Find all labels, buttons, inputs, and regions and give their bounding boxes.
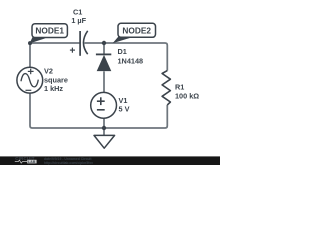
svg-text:NODE1: NODE1 [35, 26, 64, 36]
svg-text:D1: D1 [118, 47, 127, 56]
svg-text:NODE2: NODE2 [122, 25, 151, 35]
svg-text:LAB: LAB [28, 160, 36, 164]
svg-text:V2: V2 [44, 66, 53, 75]
svg-text:1 µF: 1 µF [71, 16, 86, 25]
svg-text:1 kHz: 1 kHz [44, 84, 63, 93]
svg-text:square: square [44, 75, 68, 84]
svg-text:5 V: 5 V [119, 104, 130, 113]
svg-text:100 kΩ: 100 kΩ [175, 92, 199, 101]
svg-text:1N4148: 1N4148 [118, 57, 144, 66]
svg-text:R1: R1 [175, 82, 184, 91]
svg-text:http://circuitlab.com/c/pkn5fx: http://circuitlab.com/c/pkn5fxv [44, 161, 93, 165]
